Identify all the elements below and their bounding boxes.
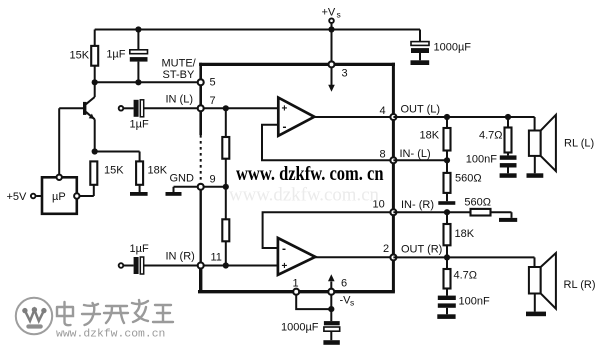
wire GND pin 9 internal bbox=[201, 186, 226, 188]
logo W crown bbox=[22, 307, 46, 329]
pin 2 bbox=[383, 243, 396, 260]
svg-text:7: 7 bbox=[210, 95, 216, 107]
svg-text:+5V: +5V bbox=[7, 191, 28, 203]
wire rail to pin 3 bbox=[331, 30, 333, 62]
capacitor 1uF (IN R coupling) bbox=[130, 243, 149, 274]
capacitor 100nF (R zobel) bbox=[438, 289, 490, 315]
junction pin7 / internal resistor bbox=[223, 105, 229, 111]
svg-text:GND: GND bbox=[170, 173, 195, 185]
svg-text:1000µF: 1000µF bbox=[434, 42, 472, 54]
IN (R) terminal bbox=[119, 263, 134, 268]
junction OUT R bbox=[444, 254, 450, 260]
svg-text:MUTE/: MUTE/ bbox=[162, 58, 197, 70]
logo circle bbox=[16, 298, 52, 334]
svg-text:ST-BY: ST-BY bbox=[163, 69, 195, 81]
op-amp U1B (right channel) bbox=[278, 238, 315, 275]
junction mute net / 1uF bbox=[135, 79, 141, 85]
svg-text:s: s bbox=[337, 10, 341, 20]
pin 4 bbox=[380, 105, 397, 120]
logo text chinese (stylized) bbox=[57, 300, 173, 325]
junction IN- L bbox=[444, 157, 450, 163]
internal resistor (upper) bbox=[222, 108, 229, 187]
pin 1 bbox=[293, 278, 300, 295]
svg-text:6: 6 bbox=[341, 278, 347, 290]
svg-text:s: s bbox=[350, 298, 354, 308]
svg-text:11: 11 bbox=[211, 252, 222, 264]
svg-text:18K: 18K bbox=[148, 165, 168, 177]
svg-text:1µF: 1µF bbox=[106, 49, 125, 61]
ground (100nF L) bbox=[500, 173, 517, 178]
svg-text:IN (R): IN (R) bbox=[166, 251, 195, 263]
GND pin 9 external bbox=[170, 173, 198, 193]
svg-text:OUT (R): OUT (R) bbox=[401, 244, 442, 256]
wire +Vs supply rail bbox=[95, 29, 420, 31]
capacitor 100nF (L zobel) bbox=[466, 153, 517, 174]
ground (560 L) bbox=[438, 201, 455, 205]
wire op-amp L output to pin 4 bbox=[314, 116, 393, 118]
pin 5 bbox=[198, 77, 216, 89]
wire OUT (L) net bbox=[393, 116, 534, 118]
ground (bottom 1000uF) bbox=[323, 340, 339, 345]
pin 6 arrow (inside IC) bbox=[328, 274, 335, 289]
svg-text:IN- (R): IN- (R) bbox=[401, 199, 434, 211]
junction pin1/pin6/1000uF bbox=[328, 306, 334, 312]
wire pin 1 to 1000uF junction bbox=[296, 295, 331, 309]
svg-text:+: + bbox=[282, 261, 288, 272]
svg-text:-: - bbox=[282, 242, 286, 256]
svg-text:www. dzkfw. com. cn: www. dzkfw. com. cn bbox=[236, 163, 384, 185]
junction rail / 1uF mute cap bbox=[135, 26, 141, 32]
resistor 15K (bias to uP) bbox=[80, 161, 124, 196]
svg-text:5: 5 bbox=[210, 77, 216, 89]
svg-text:560Ω: 560Ω bbox=[464, 197, 491, 209]
svg-text:560Ω: 560Ω bbox=[455, 173, 482, 185]
resistor 560ohm (R horizontal) bbox=[447, 197, 512, 218]
wire IN R to pin 11 bbox=[144, 265, 198, 267]
ground (18K) bbox=[130, 192, 148, 196]
junction Q1 emitter / 15K / 18K bbox=[92, 148, 98, 154]
svg-text:3: 3 bbox=[342, 68, 348, 80]
speaker RL (R) bbox=[529, 253, 596, 312]
svg-text:-: - bbox=[283, 120, 287, 134]
svg-text:4.7Ω: 4.7Ω bbox=[479, 130, 503, 142]
pin 11 bbox=[198, 252, 222, 269]
svg-text:www.dzkfw.com.cn: www.dzkfw.com.cn bbox=[56, 329, 165, 341]
svg-text:4.7Ω: 4.7Ω bbox=[454, 270, 478, 282]
pin 9 bbox=[198, 174, 216, 190]
wire feedback R (pin 10 to op-amp minus) bbox=[263, 212, 394, 248]
resistor 15K (top, mute pull-up) bbox=[70, 30, 99, 83]
pin 3 bbox=[329, 61, 348, 79]
svg-text:8: 8 bbox=[380, 149, 386, 161]
svg-text:IN (L): IN (L) bbox=[166, 94, 194, 106]
pin 8 bbox=[380, 149, 397, 164]
svg-text:OUT (L): OUT (L) bbox=[401, 104, 441, 116]
capacitor 1000uF (bottom, -Vs) bbox=[281, 309, 340, 340]
capacitor 1uF (mute filter) bbox=[106, 30, 147, 83]
resistor 18K (L feedback) bbox=[420, 117, 451, 160]
capacitor 1000uF (top, +Vs) bbox=[411, 30, 471, 61]
svg-text:1µF: 1µF bbox=[130, 119, 149, 131]
svg-text:2: 2 bbox=[383, 243, 389, 255]
ground (560 R) bbox=[499, 218, 517, 222]
svg-text:IN- (L): IN- (L) bbox=[400, 148, 431, 160]
svg-text:4: 4 bbox=[380, 105, 386, 117]
wire Q1 base to uP bbox=[59, 107, 83, 109]
svg-text:9: 9 bbox=[210, 174, 216, 186]
svg-text:+V: +V bbox=[322, 7, 336, 19]
junction IN- R bbox=[444, 209, 450, 215]
svg-text:1000µF: 1000µF bbox=[281, 322, 319, 334]
junction OUT L / 4.7ohm bbox=[505, 114, 511, 120]
resistor 560ohm (L to ground) bbox=[444, 160, 482, 201]
ground (speaker R) bbox=[526, 312, 546, 317]
junction mute net / 15K / Q1 collector bbox=[92, 79, 98, 85]
svg-text:15K: 15K bbox=[104, 165, 124, 177]
junction +Vs rail / pin 3 bbox=[328, 26, 334, 32]
resistor 4.7ohm (L zobel) bbox=[479, 117, 512, 153]
IC box U1 bbox=[198, 63, 395, 292]
capacitor 1uF (IN L coupling) bbox=[130, 100, 149, 131]
svg-text:18K: 18K bbox=[420, 130, 440, 142]
pin 3 arrow (inside IC) bbox=[328, 68, 335, 92]
wire pin11 line to op-amp R bbox=[201, 265, 278, 267]
IN (L) terminal bbox=[119, 106, 134, 111]
internal resistor (lower) bbox=[222, 187, 229, 266]
svg-text:RL (L): RL (L) bbox=[564, 138, 594, 150]
wire pin7 line to op-amp L bbox=[201, 107, 279, 109]
speaker RL (L) bbox=[529, 115, 594, 174]
svg-text:18K: 18K bbox=[455, 228, 475, 240]
svg-text:100nF: 100nF bbox=[466, 154, 497, 166]
pin 7 bbox=[198, 95, 216, 111]
resistor 18K (R feedback) bbox=[444, 212, 475, 257]
wire emitter junction to 18K bbox=[95, 151, 140, 153]
ground (100nF R) bbox=[437, 314, 455, 319]
pin 6 bbox=[328, 278, 347, 295]
wire op-amp R output to pin 2 bbox=[315, 256, 393, 258]
ground (speaker L) bbox=[527, 173, 544, 178]
svg-text:µP: µP bbox=[52, 191, 66, 203]
junction OUT L / 18K bbox=[444, 114, 450, 120]
junction GND / internal resistors bbox=[223, 184, 229, 190]
junction pin11 / internal resistor bbox=[223, 262, 229, 268]
+Vs terminal bbox=[322, 7, 341, 30]
uP block bbox=[42, 175, 80, 214]
+5V terminal bbox=[7, 191, 43, 203]
wire IN L to pin 7 bbox=[144, 107, 198, 109]
wire feedback L (pin 8 to op-amp minus) bbox=[262, 125, 393, 161]
wire pin 6 down bbox=[330, 295, 332, 309]
op-amp U1A (left channel) bbox=[278, 98, 314, 136]
ground (top 1000uF) bbox=[411, 60, 430, 65]
svg-text:www.dzkfw.com.cn: www.dzkfw.com.cn bbox=[229, 185, 379, 206]
svg-text:RL (R): RL (R) bbox=[564, 279, 596, 291]
svg-text:100nF: 100nF bbox=[459, 296, 490, 308]
wire MUTE/ST-BY net bbox=[95, 81, 198, 83]
resistor 18K (emitter to ground) bbox=[136, 161, 168, 192]
svg-text:15K: 15K bbox=[70, 50, 90, 62]
resistor 4.7ohm (R zobel) bbox=[444, 257, 478, 288]
transistor Q1 (NPN mute driver) bbox=[83, 82, 95, 151]
svg-text:+: + bbox=[282, 104, 288, 115]
wire OUT (R) net bbox=[393, 256, 534, 258]
wire IN- (L) net bbox=[393, 159, 447, 161]
ground (GND pin) bbox=[166, 192, 182, 196]
pin 10 bbox=[373, 199, 397, 216]
wire IN- (R) net bbox=[393, 211, 447, 213]
svg-text:1µF: 1µF bbox=[130, 243, 149, 255]
svg-text:1: 1 bbox=[293, 278, 299, 290]
